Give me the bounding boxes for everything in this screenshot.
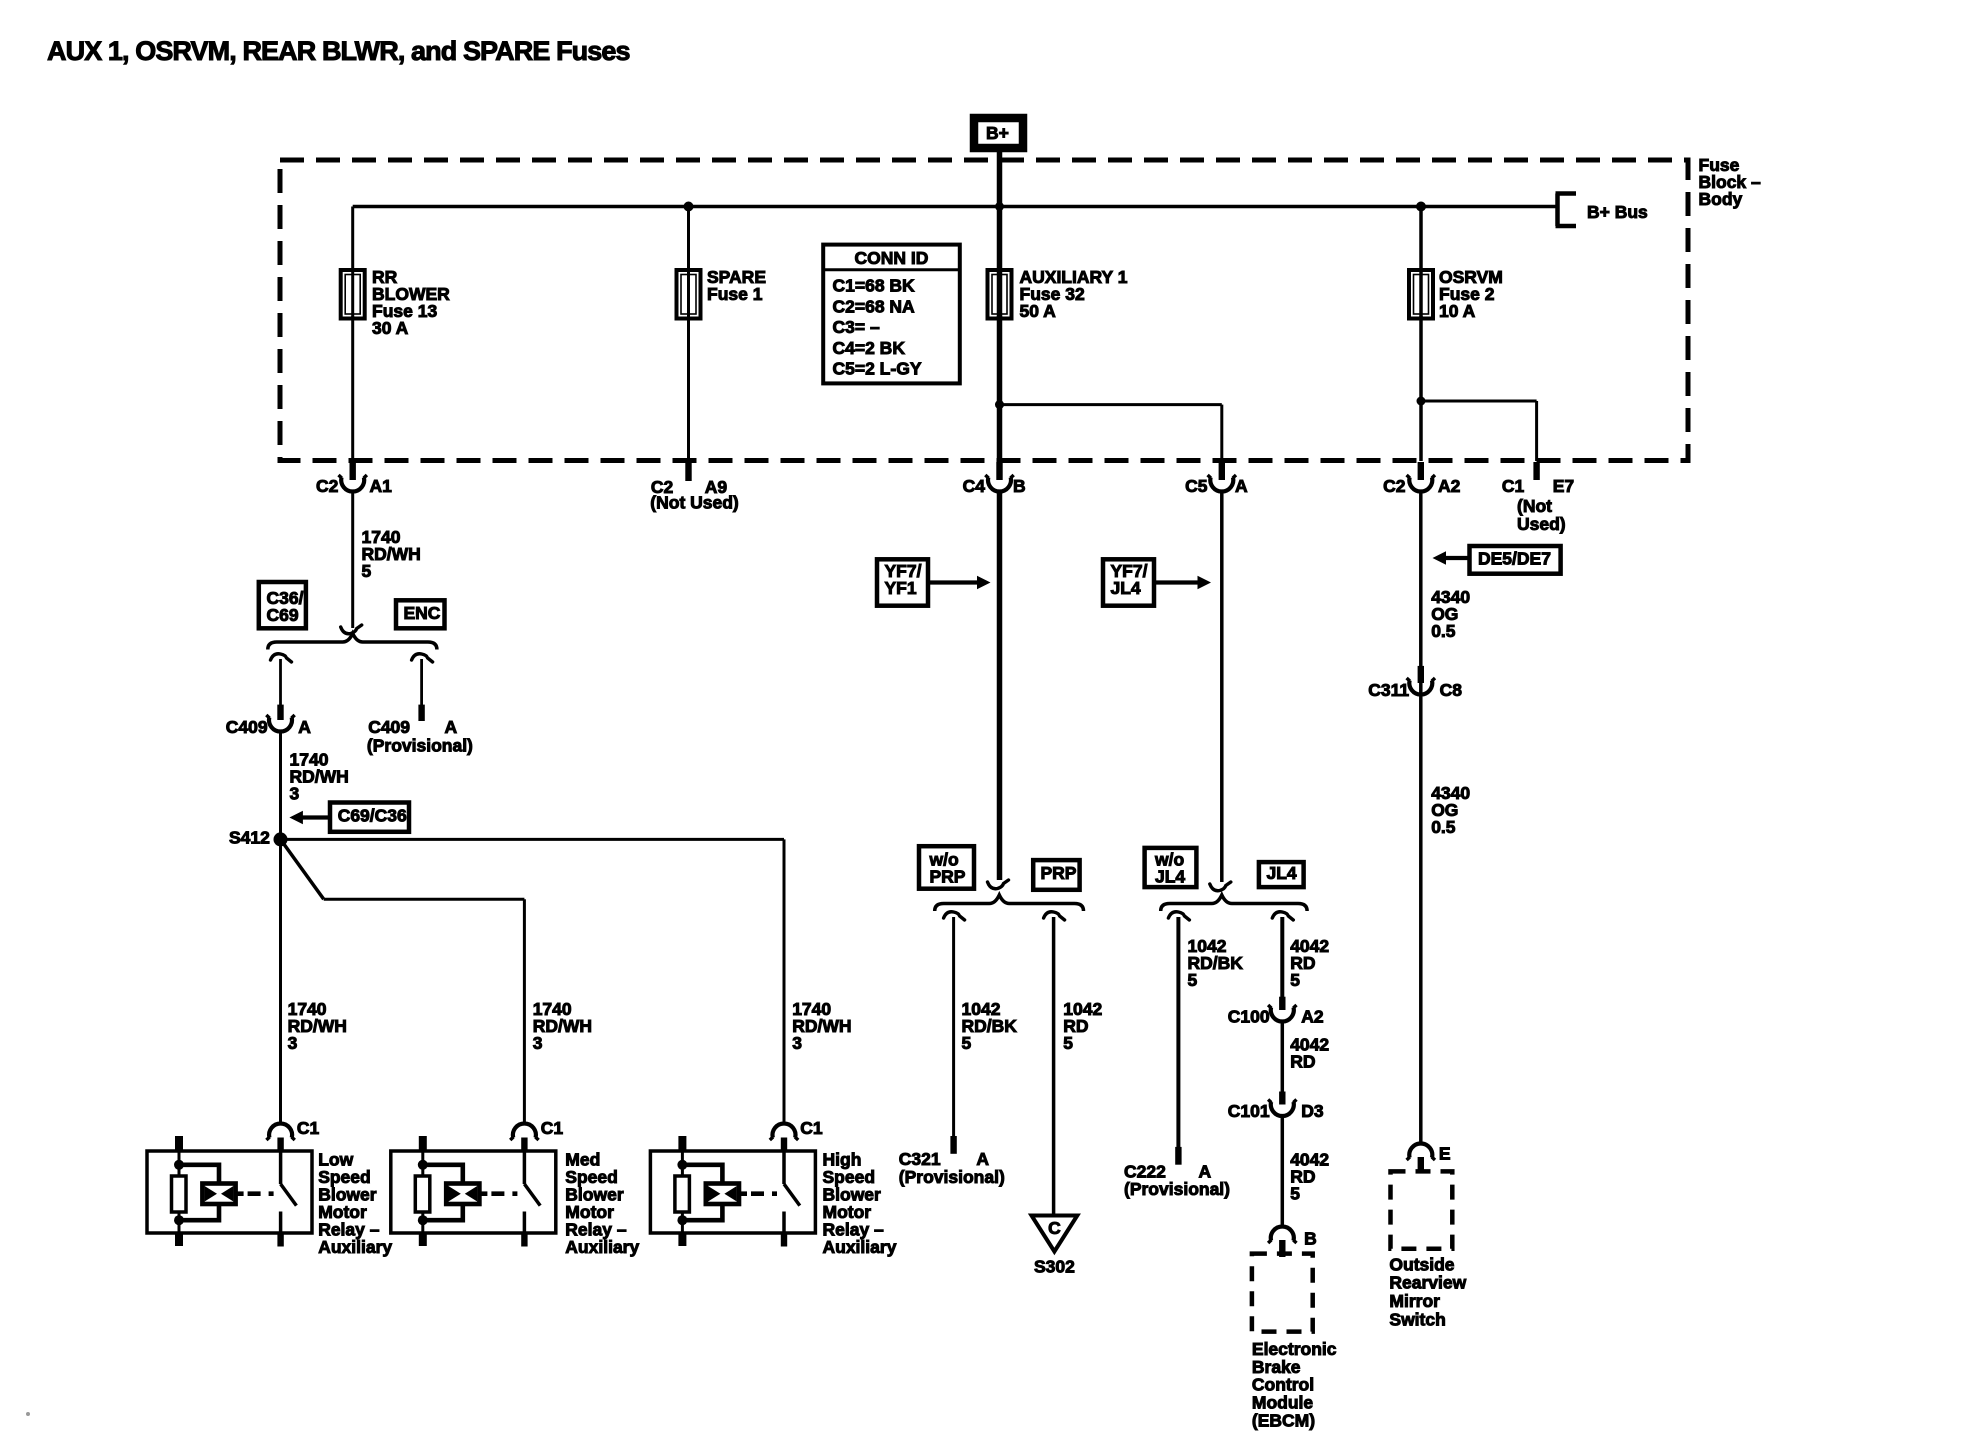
svg-text:AUX 1, OSRVM, REAR BLWR, and S: AUX 1, OSRVM, REAR BLWR, and SPARE Fuses xyxy=(47,36,630,66)
wire JL4 drop to C100 xyxy=(1280,917,1284,998)
fuse F13 RR BLOWER xyxy=(341,270,365,319)
wire C101 to EBCM xyxy=(1281,1117,1285,1227)
wire end hook (C5) xyxy=(1210,882,1231,891)
svg-text:RD: RD xyxy=(1290,1052,1315,1072)
option drop hook left (C409 A) xyxy=(271,654,292,662)
svg-text:S302: S302 xyxy=(1034,1257,1075,1277)
connector C4 pin B xyxy=(996,462,1002,480)
svg-text:C1=68 BK: C1=68 BK xyxy=(833,276,916,296)
fuse F1 SPARE xyxy=(677,270,701,319)
svg-text:C3= –: C3= – xyxy=(833,317,880,337)
connector B at EBCM xyxy=(1271,1226,1294,1240)
svg-text:A1: A1 xyxy=(370,476,393,496)
svg-text:C311: C311 xyxy=(1368,680,1409,700)
fuse block - body dashed outline xyxy=(280,160,1688,461)
option box w/o PRP xyxy=(919,846,974,889)
wire AUX1 fuse down to connector C4-B xyxy=(997,316,1003,461)
wire S412 down to low-speed relay xyxy=(279,839,282,1124)
svg-text:D3: D3 xyxy=(1301,1101,1324,1121)
svg-text:Auxiliary: Auxiliary xyxy=(823,1237,897,1257)
power symbol B+ xyxy=(974,118,1023,148)
svg-text:C5=2 L-GY: C5=2 L-GY xyxy=(833,359,922,379)
wire C5-A down to option split xyxy=(1220,492,1224,882)
svg-text:3: 3 xyxy=(533,1033,543,1053)
relay: High Speed Blower Motor Relay - Auxiliary xyxy=(650,1123,815,1246)
svg-text:10 A: 10 A xyxy=(1439,301,1476,321)
option box PRP xyxy=(1033,860,1079,890)
connector box C36/C69 xyxy=(259,582,306,628)
wire B+ vertical into fuse block xyxy=(997,152,1003,319)
node junction bus/SPARE xyxy=(684,202,694,212)
wire SPARE fuse to pin A9 xyxy=(687,316,690,461)
svg-text:YF1: YF1 xyxy=(885,578,917,598)
svg-text:A2: A2 xyxy=(1301,1006,1324,1026)
callout box YF7/JL4 with arrow xyxy=(1103,559,1154,605)
option box JL4 xyxy=(1259,862,1304,887)
svg-text:B+: B+ xyxy=(986,123,1009,143)
svg-text:E: E xyxy=(1439,1144,1451,1164)
svg-text:C69: C69 xyxy=(267,605,299,625)
svg-text:S412: S412 xyxy=(229,828,270,848)
svg-text:(Not: (Not xyxy=(1517,496,1552,516)
svg-text:C2: C2 xyxy=(1383,476,1406,496)
connector C2 pin A9 (not used) xyxy=(685,462,691,481)
node junction OSRVM/E7 branch xyxy=(1417,397,1426,406)
svg-text:PRP: PRP xyxy=(1041,863,1077,883)
svg-text:0.5: 0.5 xyxy=(1431,621,1456,641)
svg-text:C1: C1 xyxy=(297,1118,320,1138)
svg-text:C409: C409 xyxy=(226,717,268,737)
connector C1 pin E7 (not used) xyxy=(1533,462,1539,480)
wire S412 to high-speed relay xyxy=(281,838,785,841)
svg-text:B: B xyxy=(1304,1228,1317,1248)
connector C222 pin A provisional (no mate) xyxy=(1175,1147,1181,1165)
wire C100 to C101 xyxy=(1281,1022,1285,1092)
svg-text:Body: Body xyxy=(1699,189,1743,209)
svg-text:C409: C409 xyxy=(368,717,410,737)
svg-text:A2: A2 xyxy=(1438,476,1461,496)
svg-text:A: A xyxy=(445,717,458,737)
option drop hook JL4 xyxy=(1272,912,1293,920)
svg-text:C1: C1 xyxy=(541,1118,564,1138)
wire B+ bus horizontal xyxy=(353,205,1558,209)
relay: Low Speed Blower Motor Relay - Auxiliary xyxy=(147,1123,312,1246)
option split brace (JL4) xyxy=(1161,895,1307,911)
callout box C69/C36 with arrow xyxy=(330,803,409,832)
wire S412 diagonal to med-speed relay xyxy=(281,839,324,899)
svg-text:C2=68 NA: C2=68 NA xyxy=(833,296,916,316)
svg-text:JL4: JL4 xyxy=(1111,578,1141,598)
svg-text:Auxiliary: Auxiliary xyxy=(565,1237,639,1257)
callout box DE5/DE7 with arrow xyxy=(1470,546,1561,574)
svg-text:A: A xyxy=(298,717,311,737)
svg-text:(Not Used): (Not Used) xyxy=(650,493,738,513)
svg-text:(Provisional): (Provisional) xyxy=(367,736,473,756)
svg-text:JL4: JL4 xyxy=(1267,863,1297,883)
node junction bus/OSRVM xyxy=(1416,202,1426,212)
connector C311 pin C8 xyxy=(1418,666,1424,683)
fuse F32 AUXILIARY 1 xyxy=(988,270,1012,319)
svg-text:C4=2 BK: C4=2 BK xyxy=(833,338,906,358)
node junction bus/B+ feed xyxy=(995,202,1004,211)
harness split brace C36/C69-ENC xyxy=(268,634,437,650)
connector C321 pin A provisional (no mate) xyxy=(950,1136,956,1154)
svg-text:C8: C8 xyxy=(1440,680,1463,700)
connector C2 pin A1 xyxy=(350,462,356,480)
svg-text:(Provisional): (Provisional) xyxy=(899,1167,1005,1187)
svg-text:C5: C5 xyxy=(1185,476,1208,496)
svg-text:3: 3 xyxy=(288,1033,298,1053)
svg-text:Auxiliary: Auxiliary xyxy=(318,1237,392,1257)
svg-text:30 A: 30 A xyxy=(372,318,409,338)
connector E at mirror switch xyxy=(1409,1143,1432,1157)
wire w/o PRP drop to C321 xyxy=(952,917,955,1137)
svg-text:A: A xyxy=(1235,476,1248,496)
connector C409 pin A provisional (no mate) xyxy=(418,705,424,721)
option drop hook PRP xyxy=(1044,912,1065,920)
svg-text:5: 5 xyxy=(1063,1033,1073,1053)
connector C100 pin A2 xyxy=(1279,997,1285,1010)
wire C4-B down to option split xyxy=(997,492,1003,880)
callout box YF7/YF1 with arrow xyxy=(877,559,928,605)
wire C2-A2 down to mirror switch xyxy=(1419,492,1423,1144)
svg-text:Mirror: Mirror xyxy=(1389,1291,1440,1311)
svg-text:3: 3 xyxy=(290,784,300,804)
svg-text:5: 5 xyxy=(1290,970,1300,990)
fuse F2 OSRVM xyxy=(1409,270,1433,319)
connector box ENC xyxy=(396,600,445,628)
option drop hook w/o JL4 xyxy=(1168,912,1189,920)
wire w/o JL4 drop to C222 xyxy=(1176,917,1180,1147)
svg-text:C69/C36: C69/C36 xyxy=(338,805,407,825)
svg-text:C1: C1 xyxy=(1502,476,1525,496)
svg-text:3: 3 xyxy=(792,1033,802,1053)
option split brace (PRP) xyxy=(935,895,1084,911)
Outside Rearview Mirror Switch dashed box xyxy=(1391,1171,1453,1248)
svg-text:C100: C100 xyxy=(1228,1006,1270,1026)
option box w/o JL4 xyxy=(1145,848,1197,887)
scan speck xyxy=(26,1412,30,1416)
svg-text:5: 5 xyxy=(1188,970,1198,990)
wire PRP drop to S302 xyxy=(1052,917,1056,1216)
B+ Bus terminal bracket xyxy=(1555,194,1560,227)
CONN ID table xyxy=(823,245,960,384)
svg-text:Outside: Outside xyxy=(1389,1254,1454,1274)
svg-text:C2: C2 xyxy=(316,476,339,496)
wire C409 to S412 xyxy=(279,732,282,840)
svg-text:E7: E7 xyxy=(1553,476,1574,496)
wire OSRVM fuse down to connector C2-A2 xyxy=(1419,316,1423,461)
relay: Med Speed Blower Motor Relay - Auxiliary xyxy=(391,1123,556,1246)
wire C2-A1 to harness split xyxy=(351,492,354,628)
wire drop to C409 xyxy=(279,659,282,705)
wire branch to E7 (not used) xyxy=(1421,400,1537,403)
node junction AUX1/C5 branch xyxy=(995,400,1004,409)
connector C409 pin A xyxy=(277,705,283,720)
connector C2 pin A2 xyxy=(1418,462,1424,480)
option drop hook right (C409 provisional) xyxy=(412,654,433,662)
svg-text:B: B xyxy=(1013,476,1026,496)
wire end hook (AUX1) xyxy=(988,880,1009,889)
svg-text:C1: C1 xyxy=(800,1118,823,1138)
splice node S412 xyxy=(274,832,288,846)
svg-text:CONN ID: CONN ID xyxy=(855,248,929,268)
connector C5 pin A xyxy=(1219,462,1225,480)
svg-text:5: 5 xyxy=(362,561,372,581)
wire branch to C5 xyxy=(1000,403,1222,406)
svg-text:Fuse 1: Fuse 1 xyxy=(707,284,763,304)
svg-text:DE5/DE7: DE5/DE7 xyxy=(1478,548,1551,568)
wire RR fuse to connector C2-A1 xyxy=(351,316,354,461)
wire end hook (C2-A1 split) xyxy=(341,625,362,634)
svg-text:Switch: Switch xyxy=(1389,1309,1445,1329)
svg-text:JL4: JL4 xyxy=(1155,866,1185,886)
svg-text:5: 5 xyxy=(1290,1183,1300,1203)
svg-text:C4: C4 xyxy=(963,476,986,496)
svg-text:50 A: 50 A xyxy=(1020,301,1057,321)
svg-text:B+ Bus: B+ Bus xyxy=(1587,202,1648,222)
svg-text:C: C xyxy=(1048,1218,1061,1238)
svg-text:(EBCM): (EBCM) xyxy=(1252,1410,1315,1430)
svg-text:ENC: ENC xyxy=(404,603,441,623)
wire bus to SPARE fuse xyxy=(687,207,690,273)
svg-text:5: 5 xyxy=(962,1033,972,1053)
svg-text:Rearview: Rearview xyxy=(1389,1273,1466,1293)
svg-text:Used): Used) xyxy=(1517,514,1566,534)
svg-text:C101: C101 xyxy=(1228,1101,1270,1121)
option drop hook w/o PRP xyxy=(944,912,965,920)
ground splice S302 triangle xyxy=(1032,1216,1078,1252)
EBCM dashed box xyxy=(1252,1254,1313,1332)
wire drop to C409 provisional xyxy=(420,659,423,705)
wire bus to RR BLOWER fuse xyxy=(351,207,354,273)
svg-text:(Provisional): (Provisional) xyxy=(1124,1179,1230,1199)
svg-text:PRP: PRP xyxy=(930,866,966,886)
svg-text:0.5: 0.5 xyxy=(1431,817,1456,837)
wire bus to OSRVM fuse xyxy=(1419,207,1423,273)
connector C101 pin D3 xyxy=(1279,1092,1285,1105)
